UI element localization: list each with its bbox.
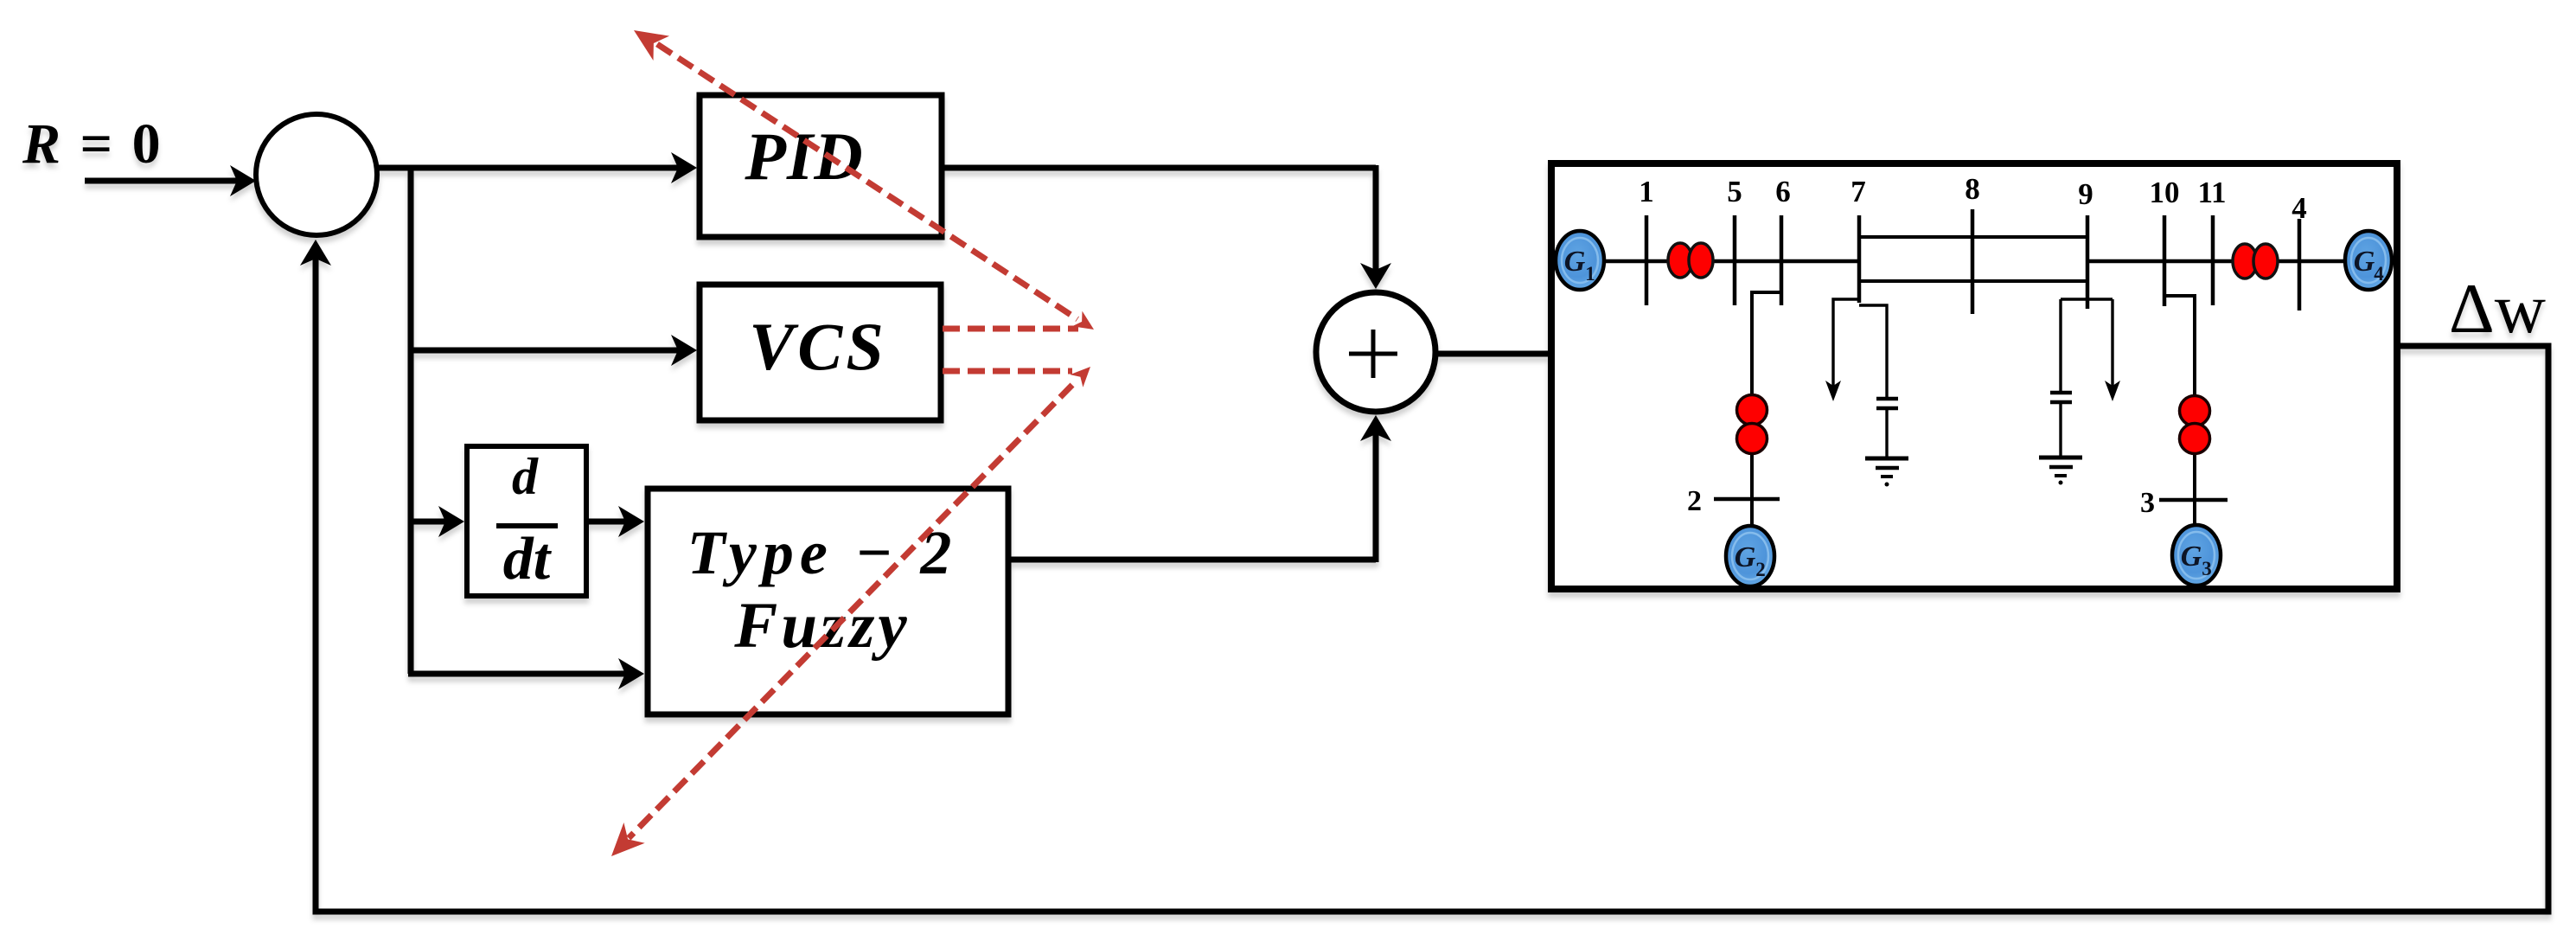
svg-text:PID: PID — [744, 118, 863, 194]
bus 10 — [2163, 215, 2167, 306]
capacitor at bus 7 — [1859, 305, 1887, 397]
ground at bus 9 — [2039, 456, 2082, 460]
svg-text:dt: dt — [503, 526, 553, 592]
bus 9 — [2086, 215, 2090, 309]
svg-text:2: 2 — [1687, 485, 1702, 517]
svg-text:6: 6 — [1775, 175, 1791, 208]
svg-text:3: 3 — [2140, 487, 2155, 519]
wire: bus2 to G2 — [1750, 499, 1754, 528]
generator G1 — [1556, 231, 1604, 290]
wire: bus6 drop to bus2 — [1752, 292, 1781, 500]
svg-text:G: G — [2354, 246, 2375, 278]
wire: S2 output to plant — [1435, 351, 1550, 357]
wire: branch to VCS — [408, 348, 681, 354]
svg-text:5: 5 — [1727, 175, 1742, 208]
transformer T3 (red circle pair on drop) — [2180, 396, 2210, 426]
svg-text:d: d — [512, 448, 539, 505]
arrowhead into PID — [671, 152, 697, 183]
svg-text:Type − 2: Type − 2 — [687, 518, 958, 587]
svg-text:G: G — [1564, 246, 1586, 278]
wire: plant output and feedback loop — [316, 246, 2548, 912]
svg-text:4: 4 — [2374, 263, 2384, 285]
bus 4 — [2298, 219, 2302, 310]
transformer T2 (red circle pair on drop) — [1737, 395, 1767, 426]
tie line lower (bus7-bus9) — [1859, 279, 2087, 283]
wire: branch lower input to Type-2 — [408, 671, 628, 677]
svg-text:9: 9 — [2078, 177, 2093, 211]
svg-text:8: 8 — [1965, 172, 1980, 206]
svg-text:Δw: Δw — [2449, 269, 2546, 348]
svg-text:1: 1 — [1585, 263, 1595, 285]
generator G3 — [2172, 525, 2221, 586]
main bus line right (bus9 to G4) — [2087, 259, 2346, 264]
generator G4 — [2345, 231, 2392, 290]
bus 3 — [2159, 498, 2228, 503]
svg-text:G: G — [2181, 541, 2202, 573]
svg-text:2: 2 — [1755, 559, 1766, 580]
red dashed wire VCS upper output — [943, 326, 1078, 332]
summing junction S2 — [1316, 292, 1435, 412]
wire: branch to d/dt — [408, 519, 448, 525]
bus 2 — [1714, 497, 1780, 502]
wire: branch vertical — [408, 165, 414, 674]
bus 6 — [1780, 215, 1784, 305]
wire: d/dt output to Type-2 — [586, 519, 628, 525]
svg-text:VCS: VCS — [749, 309, 886, 384]
svg-text:7: 7 — [1851, 175, 1866, 208]
svg-text:11: 11 — [2197, 176, 2226, 209]
block VCS — [700, 285, 941, 420]
bus 11 — [2211, 215, 2215, 305]
capacitor at bus 9 — [2061, 298, 2113, 300]
bus 1 — [1645, 215, 1649, 305]
svg-text:1: 1 — [1639, 175, 1654, 208]
tie line upper (bus7-bus9) — [1859, 235, 2087, 239]
block Type-2 Fuzzy — [648, 489, 1008, 714]
block d/dt — [467, 446, 586, 596]
svg-text:4: 4 — [2292, 191, 2307, 225]
main bus line left (G1 to bus7) — [1602, 259, 1859, 264]
load arrow at bus 9 — [2111, 299, 2113, 387]
wire: S1 output to branch and PID — [377, 165, 681, 171]
generator G2 — [1726, 526, 1774, 586]
transformer T4 (bus11-bus4 red circle pair) — [2233, 244, 2257, 278]
svg-text:G: G — [1735, 541, 1756, 573]
svg-text:R = 0: R = 0 — [22, 112, 163, 176]
load arrow at bus 7 — [1833, 299, 1859, 387]
bus 8 — [1971, 209, 1975, 314]
block PID — [700, 95, 942, 237]
ground at bus 7 — [1865, 457, 1908, 461]
red dashed wire VCS lower output — [943, 368, 1072, 374]
red dashed annotation arrow (double-headed) through PID, up-left — [657, 44, 1077, 319]
wire: bus3 to G3 — [2193, 500, 2196, 526]
bus 5 — [1733, 215, 1737, 305]
wire: Type-2 output to summer S2 — [1008, 557, 1376, 563]
bus 7 — [1857, 215, 1862, 303]
wire: PID output to summer S2 — [942, 165, 1376, 171]
transformer T1 (bus1-bus5 red circle pair) — [1668, 243, 1692, 278]
summing junction S1 — [256, 114, 377, 235]
svg-text:Fuzzy: Fuzzy — [733, 590, 910, 662]
svg-text:3: 3 — [2202, 558, 2212, 579]
red dashed annotation arrow (double-headed) through Type-2 Fuzzy, down-left — [629, 385, 1072, 838]
wire: R input arrow into summing junction — [85, 165, 256, 196]
wire: bus10 drop to bus3 — [2164, 296, 2195, 502]
plant box: power system — [1551, 163, 2397, 589]
svg-text:10: 10 — [2150, 176, 2180, 209]
